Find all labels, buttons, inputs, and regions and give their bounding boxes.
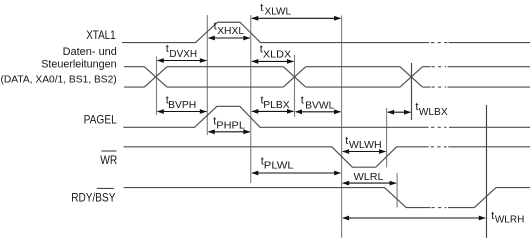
svg-text:Steuerleitungen: Steuerleitungen	[41, 59, 116, 71]
svg-text:t: t	[491, 210, 494, 222]
svg-text:RDY/BSY: RDY/BSY	[71, 190, 115, 204]
svg-text:XLDX: XLDX	[263, 49, 291, 60]
svg-text:t: t	[260, 2, 263, 14]
svg-text:XLWL: XLWL	[265, 7, 292, 18]
svg-text:t: t	[166, 43, 169, 55]
svg-text:BVPH: BVPH	[168, 100, 196, 111]
svg-text:PHPL: PHPL	[216, 120, 245, 131]
svg-text:WLBX: WLBX	[419, 107, 448, 118]
svg-text:WR: WR	[100, 153, 117, 167]
svg-text:t: t	[301, 94, 304, 106]
svg-text:DVXH: DVXH	[169, 49, 197, 60]
svg-text:WLRH: WLRH	[495, 214, 524, 225]
svg-text:WLWH: WLWH	[349, 140, 382, 151]
svg-text:WLRL: WLRL	[354, 172, 384, 183]
svg-text:PLWL: PLWL	[264, 160, 294, 171]
svg-text:PAGEL: PAGEL	[84, 113, 117, 127]
svg-text:XTAL1: XTAL1	[86, 28, 116, 42]
svg-text:PLBX: PLBX	[263, 100, 290, 111]
svg-text:(DATA, XA0/1, BS1, BS2): (DATA, XA0/1, BS1, BS2)	[1, 75, 117, 86]
svg-text:Daten- und: Daten- und	[63, 46, 117, 58]
svg-text:BVWL: BVWL	[305, 100, 335, 111]
svg-text:t: t	[345, 135, 348, 147]
svg-text:XHXL: XHXL	[217, 26, 244, 37]
